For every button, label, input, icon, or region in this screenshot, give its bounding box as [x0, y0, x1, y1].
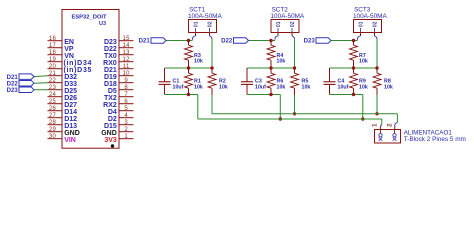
svg-text:VIN: VIN: [64, 137, 76, 144]
svg-text:D22: D22: [104, 46, 117, 53]
svg-text:10k: 10k: [359, 59, 368, 65]
svg-text:10k: 10k: [277, 59, 286, 65]
svg-text:27: 27: [49, 113, 57, 119]
svg-text:22: 22: [49, 78, 57, 84]
svg-text:02: 02: [372, 21, 378, 27]
svg-text:15: 15: [123, 36, 131, 42]
svg-text:D5: D5: [108, 88, 117, 95]
svg-text:29: 29: [49, 127, 57, 133]
svg-text:U3: U3: [99, 21, 106, 27]
svg-text:GND: GND: [101, 130, 117, 137]
svg-text:RX0: RX0: [103, 60, 117, 67]
svg-text:D2: D2: [108, 116, 117, 123]
svg-text:D12: D12: [64, 116, 77, 123]
svg-text:11: 11: [123, 64, 130, 70]
svg-text:24: 24: [49, 92, 57, 98]
svg-text:2: 2: [124, 127, 128, 133]
svg-text:23: 23: [49, 85, 57, 91]
svg-text:D18: D18: [104, 81, 117, 88]
svg-text:3: 3: [124, 120, 128, 126]
svg-text:TX2: TX2: [104, 95, 117, 102]
svg-text:D15: D15: [104, 123, 117, 130]
svg-text:T-Block 2 Pines 5 mm: T-Block 2 Pines 5 mm: [404, 136, 466, 143]
svg-text:10: 10: [123, 71, 131, 77]
svg-text:EN: EN: [64, 39, 74, 46]
svg-text:18: 18: [49, 50, 57, 56]
svg-text:D4: D4: [108, 109, 117, 116]
svg-text:17: 17: [49, 43, 57, 49]
svg-text:13: 13: [123, 50, 131, 56]
svg-text:D25: D25: [64, 88, 77, 95]
svg-text:28: 28: [49, 120, 57, 126]
svg-text:30: 30: [49, 134, 57, 140]
svg-text:D23: D23: [104, 39, 117, 46]
svg-text:1: 1: [124, 134, 128, 140]
svg-text:10k: 10k: [277, 84, 286, 90]
svg-text:D33: D33: [64, 81, 77, 88]
svg-text:D23: D23: [304, 38, 316, 45]
svg-text:VN: VN: [64, 53, 74, 60]
svg-text:RX2: RX2: [103, 102, 117, 109]
svg-text:(in)D35: (in)D35: [64, 67, 93, 74]
svg-text:10k: 10k: [359, 84, 368, 90]
svg-text:3V3: 3V3: [104, 137, 117, 144]
svg-text:16: 16: [49, 36, 57, 42]
svg-text:1: 1: [372, 123, 378, 127]
svg-text:12: 12: [123, 57, 131, 63]
svg-text:D19: D19: [104, 74, 117, 81]
svg-text:D32: D32: [64, 74, 77, 81]
svg-text:100A-50MA: 100A-50MA: [271, 13, 305, 20]
svg-text:VP: VP: [64, 46, 74, 53]
svg-text:9: 9: [124, 78, 128, 84]
svg-text:01: 01: [276, 21, 282, 27]
svg-text:5: 5: [124, 106, 128, 112]
svg-text:D13: D13: [64, 123, 77, 130]
svg-text:10k: 10k: [384, 84, 393, 90]
svg-text:10k: 10k: [194, 84, 203, 90]
svg-text:10k: 10k: [194, 59, 203, 65]
svg-text:D22: D22: [221, 38, 233, 45]
svg-text:TX0: TX0: [104, 53, 117, 60]
svg-text:100A-50MA: 100A-50MA: [353, 13, 387, 20]
svg-text:D21: D21: [104, 67, 117, 74]
svg-text:02: 02: [207, 21, 213, 27]
svg-text:20: 20: [49, 64, 57, 70]
svg-text:10uf: 10uf: [338, 84, 349, 90]
svg-text:26: 26: [49, 106, 57, 112]
svg-text:8: 8: [124, 85, 128, 91]
svg-text:4: 4: [124, 113, 128, 119]
svg-text:01: 01: [193, 21, 199, 27]
svg-text:GND: GND: [64, 130, 80, 137]
svg-text:D21: D21: [139, 38, 151, 45]
svg-text:(in)D34: (in)D34: [64, 60, 93, 67]
svg-text:21: 21: [49, 71, 57, 77]
svg-text:19: 19: [49, 57, 57, 63]
svg-text:10uf: 10uf: [173, 84, 184, 90]
svg-text:100A-50MA: 100A-50MA: [188, 13, 222, 20]
svg-text:10k: 10k: [302, 84, 311, 90]
svg-text:14: 14: [123, 43, 131, 49]
svg-text:10uf: 10uf: [255, 84, 266, 90]
svg-text:2: 2: [387, 123, 393, 127]
svg-text:25: 25: [49, 99, 57, 105]
svg-text:10k: 10k: [219, 84, 228, 90]
svg-text:ESP32_DOIT: ESP32_DOIT: [71, 15, 107, 21]
svg-text:01: 01: [358, 21, 364, 27]
svg-text:D26: D26: [64, 95, 77, 102]
svg-text:6: 6: [124, 99, 128, 105]
svg-text:D14: D14: [64, 109, 77, 116]
svg-text:D27: D27: [64, 102, 77, 109]
svg-text:02: 02: [290, 21, 296, 27]
svg-text:D23: D23: [7, 87, 19, 94]
svg-text:7: 7: [124, 92, 128, 98]
